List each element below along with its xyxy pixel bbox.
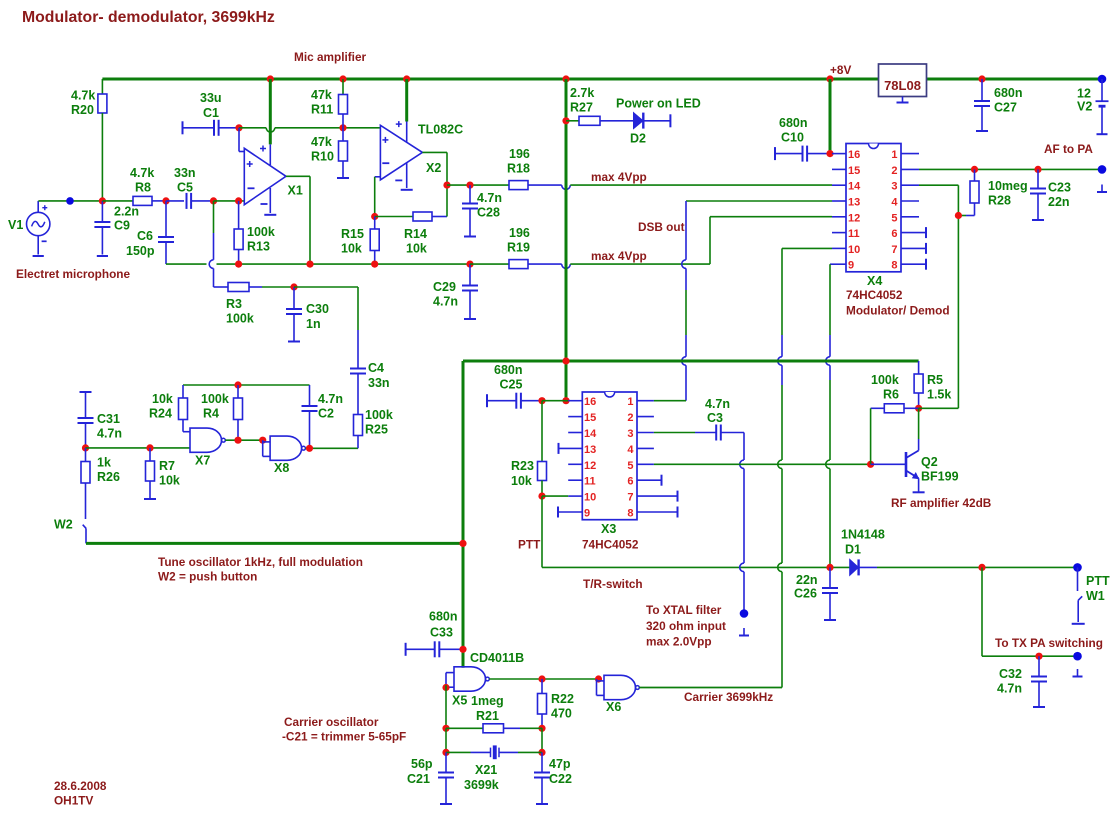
svg-text:R13: R13 — [247, 240, 270, 254]
resistor R15 — [374, 217, 376, 230]
svg-text:4.7k: 4.7k — [130, 166, 154, 180]
svg-text:-C21 = trimmer 5-65pF: -C21 = trimmer 5-65pF — [282, 730, 406, 744]
wire X8 out — [305, 447, 358, 449]
capacitor C27 — [981, 79, 983, 101]
svg-text:1N4148: 1N4148 — [841, 528, 885, 542]
svg-text:33n: 33n — [174, 166, 196, 180]
capacitor C33 — [405, 643, 407, 656]
wire +8V drop x566 — [565, 79, 568, 401]
junction C25 — [538, 397, 545, 404]
junction X7out-R4 — [234, 437, 241, 444]
IC X4 74HC4052 — [846, 144, 901, 272]
svg-text:10meg: 10meg — [988, 179, 1028, 193]
junction C1 — [235, 124, 242, 131]
gate X5 — [454, 667, 486, 691]
node TX PA — [1073, 652, 1082, 661]
svg-text:W2: W2 — [54, 518, 73, 532]
svg-text:R27: R27 — [570, 101, 593, 115]
svg-text:4.7n: 4.7n — [318, 392, 343, 406]
svg-text:6: 6 — [891, 228, 897, 240]
svg-text:R5: R5 — [927, 373, 943, 387]
svg-text:33n: 33n — [368, 376, 390, 390]
svg-text:C1: C1 — [203, 106, 219, 120]
resistor R21 — [446, 727, 483, 729]
svg-text:320 ohm input: 320 ohm input — [646, 619, 726, 633]
junction X21r — [538, 749, 545, 756]
resistor R20 — [101, 79, 103, 94]
svg-text:C32: C32 — [999, 667, 1022, 681]
svg-text:R20: R20 — [71, 103, 94, 117]
wire pin5 to Q2 — [654, 463, 871, 465]
svg-text:Carrier 3699kHz: Carrier 3699kHz — [684, 690, 773, 704]
diode D2 — [634, 113, 644, 129]
wire C5 to X1 — [214, 200, 245, 202]
junction C29 — [466, 261, 473, 268]
junction rail R11 — [339, 75, 346, 82]
source V1 — [27, 212, 50, 235]
svg-text:X1: X1 — [288, 184, 303, 198]
junction rail x566 — [562, 75, 569, 82]
svg-text:X7: X7 — [195, 454, 210, 468]
svg-text:1meg: 1meg — [471, 694, 504, 708]
junction R28 — [971, 166, 978, 173]
svg-text:150p: 150p — [126, 244, 155, 258]
svg-text:Tune oscillator 1kHz, full mod: Tune oscillator 1kHz, full modulation — [158, 555, 363, 569]
svg-text:BF199: BF199 — [921, 470, 959, 484]
wire carrier to pin10 — [782, 247, 832, 249]
svg-text:2.2n: 2.2n — [114, 205, 139, 219]
wire osc top — [183, 384, 310, 386]
svg-text:max 4Vpp: max 4Vpp — [591, 170, 647, 184]
ground TX node — [1077, 669, 1079, 677]
svg-text:10k: 10k — [406, 242, 427, 256]
svg-text:680n: 680n — [494, 363, 523, 377]
svg-text:C6: C6 — [137, 229, 153, 243]
wire C1 to X2+ — [239, 127, 266, 129]
svg-text:C5: C5 — [177, 181, 193, 195]
svg-text:7: 7 — [891, 244, 897, 256]
svg-text:33u: 33u — [200, 91, 222, 105]
junction R21l — [442, 725, 449, 732]
gate X6 — [604, 675, 636, 699]
wire X6 out — [639, 687, 782, 689]
junction R7t — [146, 444, 153, 451]
wire pin10 X3 — [542, 495, 568, 497]
svg-text:74HC4052: 74HC4052 — [846, 288, 903, 302]
svg-text:R3: R3 — [226, 297, 242, 311]
capacitor C26 — [829, 567, 831, 588]
resistor R28 — [974, 169, 976, 181]
junction C5-R3 — [210, 197, 217, 204]
wire R3 to C4 — [294, 286, 358, 288]
junction R23b — [538, 493, 545, 500]
svg-text:680n: 680n — [779, 116, 808, 130]
resistor R22 — [541, 679, 543, 694]
svg-text:22n: 22n — [796, 573, 818, 587]
resistor R18 — [509, 181, 528, 190]
svg-text:4.7n: 4.7n — [97, 427, 122, 441]
ground AF node — [1101, 185, 1103, 193]
junction X4 pin16 — [826, 150, 833, 157]
svg-text:R4: R4 — [203, 407, 219, 421]
resistor R25 — [354, 415, 363, 436]
svg-text:10k: 10k — [152, 392, 173, 406]
svg-text:T/R-switch: T/R-switch — [583, 577, 643, 591]
node V2+ — [1098, 75, 1107, 84]
svg-text:+8V: +8V — [830, 63, 851, 77]
resistor R6 — [884, 404, 904, 413]
svg-text:100k: 100k — [226, 312, 254, 326]
junction C23 — [1034, 166, 1041, 173]
svg-text:X2: X2 — [426, 161, 441, 175]
junction R8-C6 — [162, 197, 169, 204]
svg-text:D1: D1 — [845, 543, 861, 557]
svg-text:12: 12 — [848, 212, 860, 224]
svg-text:100k: 100k — [871, 373, 899, 387]
svg-text:15: 15 — [848, 165, 860, 177]
svg-text:PTT: PTT — [518, 538, 541, 552]
junction R21r — [538, 725, 545, 732]
junction R5b — [915, 405, 922, 412]
capacitor C5 — [166, 200, 184, 202]
svg-text:4.7n: 4.7n — [433, 295, 458, 309]
junction D1 — [826, 564, 833, 571]
svg-text:Electret microphone: Electret microphone — [16, 267, 131, 281]
svg-text:C10: C10 — [781, 131, 804, 145]
wire R5b — [919, 407, 959, 409]
svg-text:AF to PA: AF to PA — [1044, 142, 1093, 156]
svg-text:Carrier oscillator: Carrier oscillator — [284, 715, 379, 729]
svg-text:78L08: 78L08 — [884, 78, 921, 93]
svg-text:max 4Vpp: max 4Vpp — [591, 249, 647, 263]
svg-text:10k: 10k — [341, 242, 362, 256]
svg-text:1n: 1n — [306, 317, 321, 331]
svg-text:680n: 680n — [429, 610, 458, 624]
capacitor C28 — [469, 185, 471, 203]
battery V2 — [1101, 79, 1103, 101]
svg-text:R22: R22 — [551, 692, 574, 706]
wire AF to PA — [919, 168, 1102, 170]
svg-text:7: 7 — [627, 492, 633, 504]
svg-text:C23: C23 — [1048, 181, 1071, 195]
svg-text:Modulator- demodulator, 3699kH: Modulator- demodulator, 3699kHz — [22, 9, 275, 26]
svg-text:12: 12 — [1077, 87, 1091, 101]
crystal X21 — [446, 751, 471, 753]
capacitor C10 — [774, 147, 776, 160]
svg-text:3: 3 — [891, 181, 897, 193]
junction rail X2pwr — [403, 75, 410, 82]
svg-text:4.7n: 4.7n — [705, 397, 730, 411]
svg-text:D2: D2 — [630, 132, 646, 146]
svg-text:3699k: 3699k — [464, 778, 499, 792]
svg-text:X3: X3 — [601, 522, 616, 536]
svg-text:R11: R11 — [311, 103, 333, 117]
junction X8 in — [259, 437, 266, 444]
svg-text:TL082C: TL082C — [418, 123, 463, 137]
wire pin16 X3 — [542, 400, 568, 402]
wire DSB out — [686, 200, 832, 202]
wire X2 out — [422, 151, 447, 153]
regulator U-78L08 — [879, 64, 927, 97]
resistor R14 — [375, 216, 413, 218]
svg-text:R26: R26 — [97, 470, 120, 484]
svg-text:R24: R24 — [149, 407, 172, 421]
resistor R11 — [342, 79, 344, 95]
switch W1 — [1077, 567, 1079, 591]
junction rail +8V — [826, 75, 833, 82]
svg-text:C21: C21 — [407, 772, 430, 786]
svg-text:8: 8 — [627, 508, 633, 520]
svg-text:W1: W1 — [1086, 589, 1105, 603]
svg-text:X5: X5 — [452, 694, 467, 708]
junction rail C27 — [978, 75, 985, 82]
gate X7 — [190, 428, 222, 452]
resistor R24 — [182, 385, 184, 398]
svg-text:4.7k: 4.7k — [71, 89, 95, 103]
svg-text:C26: C26 — [794, 587, 817, 601]
junction C32 — [1035, 653, 1042, 660]
junction R28b — [955, 212, 962, 219]
junction X2out — [443, 182, 450, 189]
junction R22t — [538, 675, 545, 682]
svg-text:X21: X21 — [475, 763, 497, 777]
svg-text:100k: 100k — [365, 408, 393, 422]
resistor R13 — [238, 201, 240, 229]
diode D1 — [850, 559, 859, 575]
capacitor C31 — [80, 391, 92, 393]
svg-text:C4: C4 — [368, 361, 384, 375]
svg-text:5: 5 — [891, 212, 897, 224]
svg-text:2.7k: 2.7k — [570, 86, 594, 100]
svg-text:56p: 56p — [411, 757, 433, 771]
svg-text:RF amplifier 42dB: RF amplifier 42dB — [891, 496, 991, 510]
svg-text:C25: C25 — [500, 378, 523, 392]
wire xtal row — [445, 728, 447, 752]
svg-text:10k: 10k — [511, 474, 532, 488]
wire PTT — [541, 496, 543, 567]
capacitor C23 — [1037, 169, 1039, 188]
svg-text:C27: C27 — [994, 101, 1017, 115]
resistor R7 — [149, 448, 151, 461]
svg-text:C9: C9 — [114, 219, 130, 233]
svg-text:W2 = push button: W2 = push button — [158, 570, 257, 584]
svg-text:R18: R18 — [507, 162, 530, 176]
svg-text:To TX PA switching: To TX PA switching — [995, 636, 1103, 650]
svg-text:2: 2 — [891, 165, 897, 177]
svg-text:47p: 47p — [549, 757, 571, 771]
svg-text:C22: C22 — [549, 772, 572, 786]
wire X2 inv — [375, 176, 381, 178]
svg-text:22n: 22n — [1048, 195, 1070, 209]
resistor R19 — [470, 263, 509, 265]
junction R15b — [371, 261, 378, 268]
junction C31b — [82, 444, 89, 451]
svg-text:R14: R14 — [404, 227, 427, 241]
junction fb — [371, 213, 378, 220]
svg-text:C33: C33 — [430, 626, 453, 640]
capacitor C25 — [486, 394, 488, 407]
capacitor C3 — [654, 432, 695, 434]
wire C1 to X1+ — [238, 128, 240, 152]
capacitor C1 — [182, 121, 184, 134]
svg-text:196: 196 — [509, 147, 530, 161]
junction X6 in — [595, 675, 602, 682]
svg-text:2: 2 — [627, 412, 633, 424]
capacitor C29 — [469, 264, 471, 285]
gate X8 — [270, 436, 302, 460]
svg-text:R28: R28 — [988, 194, 1011, 208]
svg-text:5: 5 — [627, 460, 633, 472]
resistor R26 — [85, 448, 87, 462]
svg-text:V1: V1 — [8, 218, 23, 232]
svg-text:196: 196 — [509, 226, 530, 240]
junction R11-R10 — [339, 124, 346, 131]
svg-text:Mic amplifier: Mic amplifier — [294, 50, 367, 64]
svg-text:R23: R23 — [511, 459, 534, 473]
svg-text:4: 4 — [891, 197, 898, 209]
junction C33 — [459, 646, 466, 653]
wire TX PA — [981, 567, 983, 656]
wire X5 out — [489, 678, 596, 680]
wire mic — [38, 200, 102, 202]
svg-text:14: 14 — [584, 428, 597, 440]
capacitor C6 — [165, 201, 167, 237]
svg-text:9: 9 — [848, 260, 854, 272]
svg-text:C2: C2 — [318, 407, 334, 421]
svg-text:9: 9 — [584, 508, 590, 520]
svg-text:R21: R21 — [476, 709, 499, 723]
node XTAL — [740, 609, 749, 618]
svg-text:CD4011B: CD4011B — [470, 651, 524, 665]
svg-text:R15: R15 — [341, 227, 364, 241]
resistor R10 — [342, 128, 344, 141]
svg-text:100k: 100k — [201, 392, 229, 406]
junction tune — [459, 540, 466, 547]
svg-text:6: 6 — [627, 476, 633, 488]
svg-text:1: 1 — [891, 149, 897, 161]
svg-text:R8: R8 — [135, 181, 151, 195]
capacitor C32 — [1038, 656, 1040, 676]
wire osc drop x463 — [462, 361, 465, 668]
svg-text:X8: X8 — [274, 461, 289, 475]
junction bus x566 — [562, 357, 569, 364]
svg-text:R19: R19 — [507, 241, 530, 255]
svg-text:3: 3 — [627, 428, 633, 440]
svg-text:10k: 10k — [159, 474, 180, 488]
svg-text:28.6.2008: 28.6.2008 — [54, 779, 107, 793]
svg-text:1k: 1k — [97, 456, 111, 470]
svg-text:11: 11 — [848, 228, 860, 240]
svg-text:1: 1 — [627, 396, 633, 408]
svg-text:680n: 680n — [994, 86, 1023, 100]
svg-text:10: 10 — [848, 244, 860, 256]
node mic — [66, 197, 74, 205]
switch W2 — [83, 525, 86, 529]
wire X2out-C28 — [447, 184, 509, 186]
svg-text:OH1TV: OH1TV — [54, 794, 93, 808]
capacitor C30 — [293, 287, 295, 309]
svg-text:100k: 100k — [247, 225, 275, 239]
wire XTAL out — [743, 433, 745, 461]
wire +8V to X4 — [829, 79, 832, 154]
svg-text:15: 15 — [584, 412, 596, 424]
resistor R3 — [228, 283, 249, 292]
svg-text:13: 13 — [584, 444, 596, 456]
svg-text:PTT: PTT — [1086, 574, 1110, 588]
junction C28 — [466, 182, 473, 189]
junction x566 pin16row — [562, 397, 569, 404]
wire X3 pin1 — [654, 400, 686, 402]
svg-text:X4: X4 — [867, 274, 882, 288]
junction X21l — [442, 749, 449, 756]
svg-text:C3: C3 — [707, 411, 723, 425]
junction R4t — [234, 381, 241, 388]
svg-text:47k: 47k — [311, 88, 332, 102]
svg-text:R25: R25 — [365, 423, 388, 437]
wire to R3 — [213, 201, 215, 233]
svg-text:11: 11 — [584, 476, 596, 488]
svg-text:Q2: Q2 — [921, 455, 938, 469]
junction TX — [978, 564, 985, 571]
node PTT W1 — [1073, 563, 1082, 572]
node AF to PA — [1098, 165, 1107, 174]
svg-text:14: 14 — [848, 181, 861, 193]
svg-text:DSB out: DSB out — [638, 220, 685, 234]
wire carrier bus — [463, 360, 919, 363]
junction rail X1pwr — [267, 75, 274, 82]
capacitor C21 — [445, 752, 447, 772]
junction micnode — [99, 197, 106, 204]
wire pin9 drop — [830, 263, 832, 265]
transistor Q2 — [871, 463, 906, 465]
junction R6b — [867, 461, 874, 468]
wire X1 out — [286, 175, 310, 177]
svg-text:max 2.0Vpp: max 2.0Vpp — [646, 635, 712, 649]
svg-text:To XTAL filter: To XTAL filter — [646, 603, 722, 617]
svg-text:4: 4 — [627, 444, 634, 456]
svg-text:R10: R10 — [311, 150, 334, 164]
junction R27 — [562, 117, 569, 124]
svg-text:C28: C28 — [477, 206, 500, 220]
svg-text:47k: 47k — [311, 135, 332, 149]
op-amp X1 — [244, 148, 286, 204]
svg-text:V2: V2 — [1077, 100, 1092, 114]
svg-text:C29: C29 — [433, 280, 456, 294]
resistor R5 — [918, 361, 920, 374]
ground XTAL — [743, 628, 745, 636]
svg-text:C31: C31 — [97, 412, 120, 426]
junction X5 in — [442, 684, 449, 691]
wire X4 pin3 — [919, 184, 958, 186]
resistor R8 — [102, 200, 133, 202]
svg-text:1.5k: 1.5k — [927, 388, 951, 402]
IC X3 74HC4052 — [582, 392, 637, 520]
resistor R23 — [541, 401, 543, 462]
svg-text:C30: C30 — [306, 302, 329, 316]
junction R3-C30 — [290, 283, 297, 290]
junction X1outb — [306, 261, 313, 268]
svg-text:470: 470 — [551, 707, 572, 721]
svg-text:Power on LED: Power on LED — [616, 97, 701, 111]
svg-text:16: 16 — [584, 396, 596, 408]
svg-text:16: 16 — [848, 149, 860, 161]
svg-text:R6: R6 — [883, 388, 899, 402]
svg-text:4.7n: 4.7n — [997, 682, 1022, 696]
capacitor C2 — [309, 385, 311, 406]
wire +8V rail — [102, 78, 878, 81]
svg-text:Modulator/ Demod: Modulator/ Demod — [846, 304, 950, 318]
svg-text:10: 10 — [584, 492, 596, 504]
